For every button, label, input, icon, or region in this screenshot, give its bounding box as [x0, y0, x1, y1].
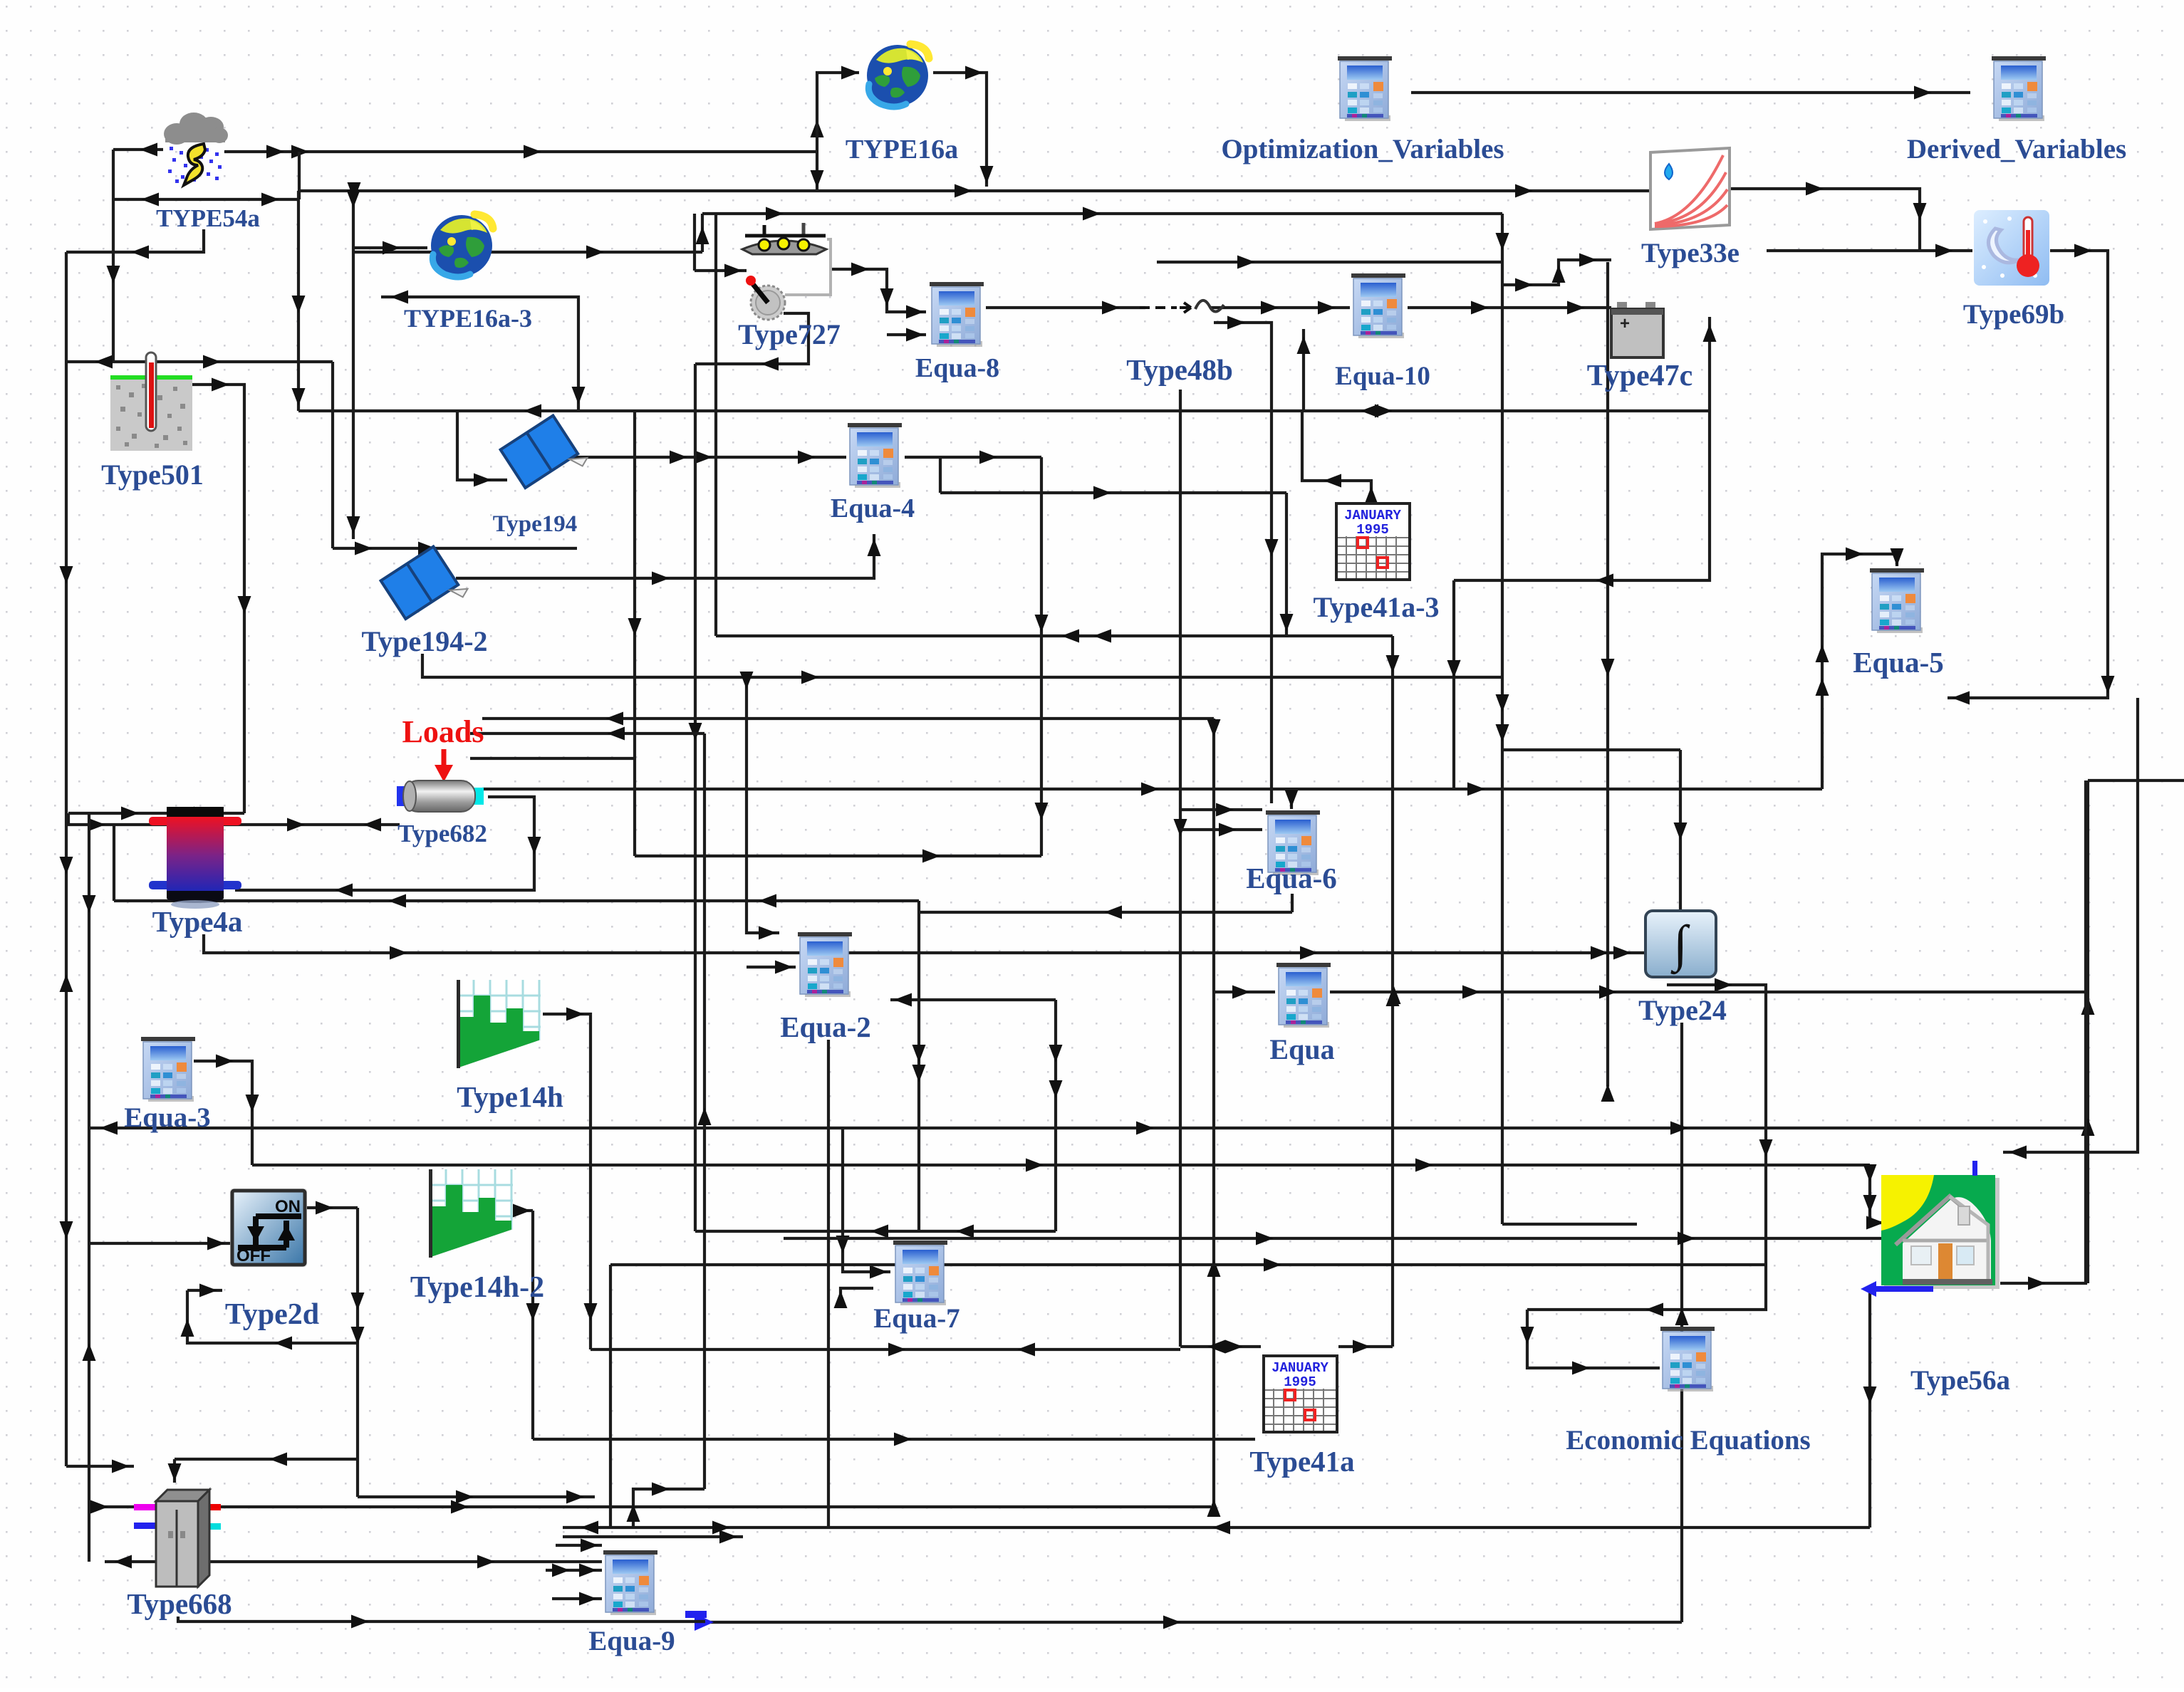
wire equa out — [1330, 986, 2095, 1015]
wire h352 to 69b — [1767, 244, 1972, 258]
wire type24 label down — [1675, 1023, 1689, 1622]
wire h2102 — [358, 1490, 595, 1504]
component Equa-5 calculator icon — [1870, 568, 1924, 633]
wire v496 — [347, 190, 360, 539]
svg-text:Type682: Type682 — [397, 820, 487, 847]
wire h1729 — [695, 1225, 1056, 1238]
wire Equa4 right — [905, 451, 1041, 464]
wire v420 — [298, 152, 301, 199]
wire equa2 in2 — [747, 961, 796, 974]
component Equa-9 calculator icon — [603, 1550, 657, 1615]
component Equa-7 calculator icon — [893, 1241, 947, 1305]
wire h2021 — [533, 1433, 1255, 1446]
wire v748 — [526, 1211, 540, 1439]
component Type41a calendar icon — [1264, 1356, 1337, 1432]
wire label stub 54a — [66, 229, 204, 259]
wire equa6 left1 — [1180, 803, 1262, 817]
svg-text:TYPE16a: TYPE16a — [846, 135, 958, 164]
svg-text:Equa-2: Equa-2 — [780, 1010, 871, 1043]
wire v2257 — [1601, 262, 1615, 1102]
wire h1030 — [470, 727, 704, 741]
svg-text:Equa-10: Equa-10 — [1335, 362, 1430, 391]
wire type41a right — [1338, 1340, 1393, 1354]
node blue anchor — [685, 1611, 714, 1631]
wire TYPE16a out — [933, 66, 994, 187]
component Equa-10 calculator icon — [1351, 273, 1405, 338]
wire trunk y1108 — [482, 783, 1822, 796]
wire Type682 out loop — [235, 797, 541, 897]
wire h354b — [353, 246, 702, 259]
wire v419 — [292, 191, 306, 411]
wire v1290 — [912, 901, 926, 1231]
svg-text:Type48b: Type48b — [1126, 353, 1233, 386]
wire equa5 up — [1816, 548, 1898, 790]
wire Equa10 out — [1408, 301, 1611, 315]
wire v1806 — [1280, 493, 1294, 636]
wire h1053 — [1502, 748, 1680, 751]
wire h1719 — [1502, 1223, 1637, 1226]
component Type194 PV panel icon — [501, 412, 590, 498]
wire TYPE16a-3 in — [353, 241, 427, 255]
wire Type194-2 label out — [422, 654, 1502, 684]
component TYPE16a-3 globe icon — [431, 214, 493, 277]
wire v2041 — [1447, 580, 1461, 789]
wire v467 — [331, 362, 334, 548]
wire type668 label stub — [178, 1615, 705, 1629]
wire h508 — [66, 355, 333, 369]
wire v857 — [609, 1265, 612, 1527]
component Type47c battery icon — [1611, 302, 1663, 357]
wire Equa4 bottom — [456, 534, 881, 585]
wire v2931 — [2081, 780, 2095, 1283]
wire trunk y300 — [702, 207, 1502, 221]
component Equa calculator icon — [1276, 963, 1331, 1028]
svg-text:Type2d: Type2d — [225, 1298, 319, 1331]
svg-text:Type14h-2: Type14h-2 — [410, 1271, 544, 1304]
wire Type48b out — [1211, 301, 1350, 315]
wire cal3 top — [1302, 411, 1378, 504]
component Type194-2 PV panel icon — [381, 543, 470, 630]
wire v1482 — [1049, 1000, 1063, 1231]
wire Type727 in — [695, 264, 747, 278]
wire trunk y577 — [298, 404, 1710, 418]
wire v502 — [351, 1208, 365, 1497]
component Type24 integrator icon — [1645, 911, 1716, 977]
wire tank label trunk — [204, 934, 1645, 960]
wire equa3 out — [194, 1055, 259, 1166]
wire TYPE54a right trunk — [224, 145, 817, 159]
wire v160tank — [113, 825, 115, 901]
wire blue line — [705, 1616, 1682, 1629]
component Type14h load profile icon — [457, 980, 541, 1077]
wire equa9 in3 — [552, 1592, 602, 1606]
wire type2d loop — [187, 1284, 222, 1297]
wire h770 — [333, 542, 577, 555]
wire trunk y2145 — [563, 1521, 1870, 1535]
wire trunk y368 — [1157, 256, 1502, 269]
component Equa-4 calculator icon — [848, 423, 902, 488]
component Equa-6 calculator icon — [1266, 810, 1320, 875]
component TYPE16a globe icon — [867, 44, 929, 107]
component Type682 pipe icon — [397, 780, 484, 812]
wire TYPE16a up — [817, 66, 859, 152]
wire Type501 out — [192, 378, 251, 814]
component Type14h-2 load profile icon — [429, 1169, 513, 1266]
wire trunk y1776 — [610, 1258, 1767, 1272]
wire vert far left — [60, 252, 73, 1466]
wire v1955 long — [1386, 636, 1400, 1347]
wire trunk y2158 — [563, 1530, 743, 1544]
wire v891 — [628, 411, 642, 856]
wire type2d out1 — [305, 1201, 358, 1215]
component Type33e psychrometric icon — [1650, 148, 1730, 229]
wire v968 long — [689, 364, 702, 1231]
component Type56a building icon — [1881, 1175, 2000, 1289]
wire type24 out — [1527, 978, 1773, 1317]
wire TYPE16a-3 out — [381, 291, 586, 412]
svg-text:Equa-7: Equa-7 — [873, 1303, 960, 1334]
wire tank top in — [191, 808, 204, 827]
svg-text:Equa-8: Equa-8 — [915, 353, 999, 383]
wire trunk y893 — [716, 630, 1393, 643]
svg-text:ON: ON — [275, 1197, 301, 1216]
wire v1320 — [939, 457, 942, 493]
wire Equa10 label stub — [1297, 329, 1311, 411]
svg-text:Type668: Type668 — [127, 1587, 232, 1620]
component Type668 heat pump icon — [134, 1490, 221, 1587]
component Type48b inverter icon — [1140, 301, 1224, 313]
wire v93 stub — [66, 1460, 134, 1473]
svg-text:Type4a: Type4a — [152, 905, 243, 938]
wire Type69b out — [1948, 244, 2115, 705]
wire trunk y2193 — [105, 1555, 602, 1569]
wire v1462 — [1035, 457, 1049, 856]
wire h1065 — [470, 757, 635, 760]
component Equa-8 calculator icon — [930, 282, 984, 347]
component Optimization_Variables calculator icon — [1338, 56, 1392, 121]
wire equa9 in2 — [546, 1564, 602, 1577]
wire h1281 — [919, 906, 1292, 919]
wire equa9 in1 — [556, 1539, 602, 1552]
wire jog y400 — [1502, 254, 1611, 292]
svg-text:Equa: Equa — [1269, 1033, 1334, 1065]
wire equa6 left2 — [1180, 823, 1262, 837]
svg-text:Equa-6: Equa-6 — [1246, 862, 1337, 894]
wire v986 — [696, 214, 709, 252]
svg-text:Type41a-3: Type41a-3 — [1313, 591, 1439, 623]
component Type4a tank icon — [149, 807, 241, 909]
svg-text:Type69b: Type69b — [1963, 299, 2064, 330]
wire trunk y1636 — [252, 1159, 1870, 1172]
wire house left in — [1863, 1164, 1887, 1230]
component Type41a-3 calendar icon — [1336, 503, 1410, 580]
wire Type33e out — [1731, 182, 1927, 251]
svg-text:Equa-5: Equa-5 — [1853, 646, 1944, 679]
wire v989 — [698, 733, 712, 1489]
wire trunk y1584 — [89, 1122, 2088, 1135]
wire equa7 in — [836, 1128, 891, 1279]
wire Type727 to Equa8 — [832, 263, 926, 319]
wire trunk y2120 — [90, 1500, 1211, 1514]
wire trunk y1202 — [635, 850, 1041, 863]
wire h1096 — [2088, 779, 2184, 782]
component Type727 controller icon — [742, 223, 831, 320]
wire v125 — [83, 813, 96, 1562]
wire trunk y1895 — [591, 1343, 1180, 1357]
wire Type48b label stub — [1174, 390, 1187, 1347]
svg-text:Type33e: Type33e — [1641, 238, 1740, 268]
svg-text:Equa-3: Equa-3 — [124, 1102, 210, 1133]
wire h1158 — [68, 818, 400, 832]
wire v1704 — [1207, 719, 1221, 1517]
svg-text:Type47c: Type47c — [1587, 360, 1693, 392]
wire v975 — [693, 214, 696, 271]
svg-text:Type41a: Type41a — [1249, 1445, 1354, 1478]
wire Equa8 out — [986, 301, 1145, 315]
wire equa5 drop — [1891, 548, 1904, 566]
wire h2049 — [175, 1453, 358, 1466]
wire econ hook2 — [1521, 1310, 1660, 1375]
svg-text:Type14h: Type14h — [457, 1080, 563, 1113]
wire Type194 in — [457, 411, 507, 487]
svg-text:Type727: Type727 — [738, 318, 841, 350]
wire type14h2 out — [513, 1204, 533, 1218]
wire tank right — [114, 894, 919, 908]
wire equa2 in1 — [740, 672, 780, 940]
wire TYPE54a lower link — [113, 193, 299, 207]
wire TYPE16a drop — [811, 120, 824, 191]
component TYPE54a storm cloud icon — [164, 113, 228, 185]
svg-text:Optimization_Variables: Optimization_Variables — [1221, 134, 1504, 164]
component Economic Equations calculator icon — [1660, 1327, 1715, 1391]
wire equa7 hook — [834, 1288, 874, 1308]
svg-text:Type194-2: Type194-2 — [361, 625, 487, 657]
wire to TYPE54a left — [113, 143, 163, 157]
wire house topright — [2003, 698, 2138, 1159]
svg-text:+: + — [1620, 314, 1630, 333]
wire equa in — [1214, 986, 1275, 999]
svg-text:Type24: Type24 — [1638, 994, 1727, 1026]
wire house bottom down — [1863, 1292, 1877, 1527]
wire equa2 right stub — [890, 993, 1056, 1007]
component Equa-2 calculator icon — [798, 932, 852, 997]
wire type2d loop2 — [181, 1290, 358, 1350]
wire Type48b right down — [1214, 316, 1279, 804]
component Equa-3 calculator icon — [141, 1037, 195, 1102]
wire type14h out — [543, 1008, 598, 1350]
svg-text:Equa-4: Equa-4 — [831, 493, 915, 523]
wire battery down — [1454, 317, 1717, 587]
wire type41a left — [1180, 1340, 1261, 1354]
svg-text:Type194: Type194 — [493, 511, 578, 537]
wire h1142 — [68, 807, 244, 820]
component Type69b sky temperature icon — [1974, 210, 2049, 286]
wire Type727 down — [695, 313, 808, 371]
component Type2d controller icon — [230, 1189, 307, 1267]
wire equa9 up path — [627, 1483, 705, 1528]
svg-text:Derived_Variables: Derived_Variables — [1907, 134, 2126, 164]
component Derived_Variables calculator icon — [1992, 56, 2046, 121]
wire equa6 top in — [1285, 789, 1299, 809]
wire vert left A — [107, 150, 120, 362]
node Type56a blue selection marks — [1861, 1161, 1977, 1297]
wire v2109 long — [1496, 214, 1509, 1224]
wire v2359 — [1674, 750, 1688, 911]
wire h1009 — [482, 712, 1214, 726]
wire trunk B — [299, 182, 1650, 200]
svg-text:TYPE54a: TYPE54a — [156, 204, 260, 232]
wire Equa8 feeder2 — [887, 328, 926, 342]
wire Loads red arrow — [435, 749, 453, 782]
wire equa2 label down — [827, 1040, 830, 1527]
svg-text:Equa-9: Equa-9 — [588, 1626, 675, 1656]
svg-text:Type56a: Type56a — [1910, 1365, 2010, 1396]
component Type501 ground temperature icon — [110, 352, 192, 451]
svg-text:Economic Equations: Economic Equations — [1566, 1425, 1810, 1456]
wire trunk y1739 — [784, 1232, 1881, 1245]
wire opt to derived — [1411, 86, 1970, 100]
wire v96 — [67, 813, 70, 825]
wire equa6 label stub — [1291, 894, 1294, 912]
wire Type194 out — [573, 451, 846, 464]
svg-text:Loads: Loads — [402, 714, 484, 749]
wire trunk y692 — [940, 486, 1286, 500]
wire house right out — [2000, 780, 2086, 1290]
svg-text:TYPE16a-3: TYPE16a-3 — [404, 304, 532, 333]
wire type2d in — [89, 1237, 231, 1250]
wire type668 top in — [168, 1459, 182, 1483]
wire v1005 — [714, 214, 717, 636]
svg-text:Type501: Type501 — [101, 459, 204, 491]
